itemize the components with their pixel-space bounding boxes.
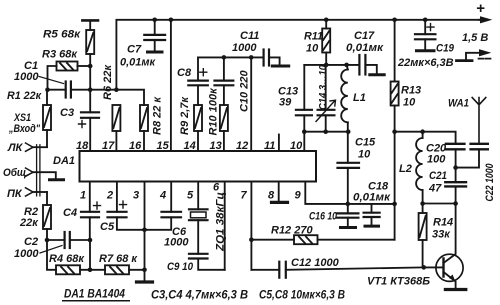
capacitor C21 bbox=[455, 168, 457, 204]
svg-text:R1 22к: R1 22к bbox=[7, 90, 42, 102]
antenna WA1 bbox=[472, 98, 486, 144]
svg-text:ZQ1 38кГц: ZQ1 38кГц bbox=[215, 192, 227, 252]
wire: C1 right lead bbox=[71, 89, 90, 91]
svg-text:C5: C5 bbox=[100, 221, 115, 233]
resistor R5 bbox=[86, 30, 94, 54]
wire: node row to R8 bbox=[90, 90, 144, 105]
capacitor C20 bbox=[445, 143, 466, 145]
ground under R7 bbox=[137, 280, 153, 283]
capacitor C11 bbox=[263, 50, 265, 66]
supply minus terminal bbox=[466, 53, 483, 61]
svg-text:L1: L1 bbox=[353, 92, 366, 104]
capacitor C3 (polarized) bbox=[81, 111, 99, 113]
svg-text:15: 15 bbox=[157, 140, 170, 152]
svg-text:7: 7 bbox=[241, 190, 248, 202]
svg-text:R5 68к: R5 68к bbox=[43, 29, 81, 41]
capacitor C1 bbox=[65, 82, 67, 98]
wire: pin9 run bbox=[305, 182, 394, 204]
ground pin8 bbox=[278, 182, 280, 202]
ground C17 bbox=[370, 73, 384, 76]
svg-text:R3 68к: R3 68к bbox=[42, 49, 78, 61]
svg-text:C11: C11 bbox=[240, 30, 259, 42]
svg-text:+: + bbox=[476, 0, 485, 17]
resistor R11 bbox=[325, 20, 327, 65]
svg-text:DA1: DA1 bbox=[53, 155, 75, 167]
capacitor C10 bbox=[223, 57, 225, 105]
svg-text:R13: R13 bbox=[401, 85, 421, 97]
inductor L2 bbox=[422, 132, 424, 138]
svg-text:C3: C3 bbox=[60, 107, 74, 119]
capacitor C22 bbox=[469, 143, 489, 145]
svg-text:R10 100к: R10 100к bbox=[208, 87, 220, 136]
svg-text:C12 1000: C12 1000 bbox=[291, 257, 340, 269]
wire: LK to R1 bbox=[33, 146, 47, 148]
wire: pin12 up bbox=[250, 57, 252, 151]
resistor R13 bbox=[394, 20, 396, 240]
capacitor C4 (polarized) bbox=[89, 182, 91, 241]
resistor R1 bbox=[46, 90, 48, 147]
svg-text:22мк×6,3В: 22мк×6,3В bbox=[397, 57, 454, 69]
wire: pin10 up bbox=[303, 132, 305, 151]
svg-text:2: 2 bbox=[106, 190, 113, 202]
wire: C2 node down to R4 bbox=[47, 240, 56, 270]
svg-text:R8 22 к: R8 22 к bbox=[152, 96, 164, 135]
svg-text:22к: 22к bbox=[19, 217, 39, 229]
wire: R5 top supply stub bar bbox=[82, 19, 98, 22]
wire: collector row bbox=[423, 203, 456, 205]
ground VT1 emitter bbox=[445, 288, 465, 291]
ground C16 bbox=[341, 226, 356, 229]
capacitor C17 bbox=[347, 65, 377, 74]
capacitor C9 bbox=[189, 253, 208, 255]
svg-text:3: 3 bbox=[133, 190, 139, 202]
svg-text:R12 270: R12 270 bbox=[271, 225, 313, 237]
wire: main +rail bbox=[116, 20, 479, 90]
svg-text:C15: C15 bbox=[355, 137, 376, 149]
svg-text:1: 1 bbox=[80, 190, 86, 202]
svg-text:WA1: WA1 bbox=[448, 98, 469, 110]
wire: output tank top bbox=[395, 132, 456, 144]
wire: R4 to node bbox=[80, 269, 105, 271]
wire: pin3 column bbox=[144, 182, 146, 282]
svg-text:100: 100 bbox=[427, 154, 446, 166]
resistor R6 bbox=[112, 105, 120, 131]
crystal ZQ1 bbox=[197, 182, 199, 254]
svg-text:C19: C19 bbox=[436, 43, 455, 55]
svg-text:17: 17 bbox=[102, 140, 115, 152]
svg-text:C4: C4 bbox=[63, 207, 77, 219]
svg-text:12: 12 bbox=[236, 140, 248, 152]
svg-text:33к: 33к bbox=[432, 229, 451, 241]
svg-text:8: 8 bbox=[268, 190, 275, 202]
svg-text:6: 6 bbox=[213, 182, 220, 194]
svg-text:0,01мк: 0,01мк bbox=[346, 42, 384, 54]
capacitor C13 bbox=[303, 65, 305, 132]
svg-text:10: 10 bbox=[290, 140, 303, 152]
svg-text:16: 16 bbox=[129, 140, 142, 152]
svg-text:ЛК: ЛК bbox=[7, 142, 24, 154]
resistor R10 bbox=[220, 105, 228, 131]
wire: C2 label leader bbox=[40, 246, 62, 254]
svg-text:R7 68 к: R7 68 к bbox=[99, 253, 138, 265]
svg-text:ПК: ПК bbox=[7, 188, 23, 200]
capacitor C6 bbox=[145, 182, 172, 230]
svg-text:C2: C2 bbox=[24, 236, 38, 248]
wire: pin6 down bbox=[224, 182, 226, 270]
wire: cable shield lines bbox=[37, 145, 40, 196]
connector XS1 pin PK bbox=[26, 188, 34, 196]
wire: tank top bbox=[304, 64, 346, 66]
svg-text:47: 47 bbox=[428, 183, 442, 195]
capacitor C7 bbox=[154, 20, 156, 51]
wire: C8 C10 pin12 row bbox=[198, 56, 263, 58]
connector XS1 pin LK bbox=[26, 143, 34, 151]
svg-text:1000: 1000 bbox=[14, 248, 39, 260]
wire: R3 right lead bbox=[78, 65, 91, 67]
IC DA1 body bbox=[80, 151, 317, 182]
capacitor C16 bbox=[347, 204, 349, 226]
supply arrow + bbox=[479, 19, 486, 21]
resistor R7 bbox=[105, 265, 129, 274]
resistor R2 bbox=[46, 192, 48, 240]
svg-text:C5,C8 10мк×6,3 В: C5,C8 10мк×6,3 В bbox=[259, 290, 345, 302]
svg-text:1000: 1000 bbox=[14, 71, 39, 83]
svg-text:R6 22к: R6 22к bbox=[102, 64, 114, 100]
svg-text:C21: C21 bbox=[429, 170, 447, 182]
svg-text:VT1 КТ368Б: VT1 КТ368Б bbox=[367, 276, 430, 288]
resistor R14 bbox=[422, 204, 424, 268]
capacitor C2 bbox=[63, 232, 65, 248]
svg-text:C8: C8 bbox=[177, 67, 192, 79]
svg-text:R4 68к: R4 68к bbox=[49, 253, 85, 265]
svg-text:1,5 В: 1,5 В bbox=[462, 32, 488, 44]
capacitor C8 (polarized) bbox=[197, 57, 199, 105]
ground C11 bbox=[272, 65, 288, 68]
resistor R12 bbox=[251, 239, 394, 241]
svg-text:1000: 1000 bbox=[164, 237, 189, 249]
svg-text:39: 39 bbox=[279, 97, 292, 109]
svg-text:5: 5 bbox=[187, 190, 194, 202]
capacitor C19 (polarized) bbox=[424, 20, 426, 50]
svg-text:C7: C7 bbox=[127, 44, 142, 56]
wire: Obsch to ground bbox=[33, 172, 56, 179]
svg-text:18: 18 bbox=[76, 140, 89, 152]
ground C19 bbox=[417, 49, 435, 52]
wire: C2 left lead bbox=[47, 239, 65, 241]
svg-text:Общ.: Общ. bbox=[3, 167, 29, 179]
wire: C4 node down bbox=[89, 240, 91, 270]
svg-text:C17: C17 bbox=[354, 30, 375, 42]
svg-text:„Вход": „Вход" bbox=[8, 123, 40, 135]
svg-text:14: 14 bbox=[184, 140, 196, 152]
resistor R3 bbox=[57, 62, 78, 71]
wire: R3 left lead bbox=[48, 66, 57, 90]
svg-text:C16 10: C16 10 bbox=[309, 211, 338, 223]
resistor R4 bbox=[56, 265, 80, 274]
wire: PK to R2 bbox=[33, 191, 47, 193]
wire: C1 left lead bbox=[48, 89, 66, 91]
wire: C2 right lead bbox=[70, 239, 90, 241]
connector XS1 pin Obsch bbox=[26, 168, 34, 176]
svg-text:10: 10 bbox=[306, 43, 319, 55]
wire: R5 bottom to node bbox=[89, 54, 91, 90]
svg-text:C22 1000: C22 1000 bbox=[484, 163, 496, 202]
svg-text:R9 2,7к: R9 2,7к bbox=[179, 96, 191, 135]
resistor R9 bbox=[194, 105, 202, 131]
capacitor C14 (variable) bbox=[325, 65, 327, 132]
ground C7 bbox=[148, 51, 163, 54]
capacitor C5 (polarized) bbox=[117, 182, 145, 230]
svg-text:L2: L2 bbox=[399, 163, 412, 175]
svg-text:C14 3…10: C14 3…10 bbox=[317, 65, 329, 110]
capacitor C12 bbox=[278, 262, 280, 278]
svg-text:0,01мк: 0,01мк bbox=[353, 192, 391, 204]
wire: R7 right lead bbox=[129, 269, 145, 271]
svg-text:C9 10: C9 10 bbox=[167, 261, 194, 273]
capacitor C15 bbox=[347, 132, 349, 204]
svg-text:10: 10 bbox=[403, 97, 416, 109]
svg-text:0,01мк: 0,01мк bbox=[120, 57, 157, 69]
wire: pin15 to rail bbox=[170, 20, 172, 151]
capacitor C18 bbox=[371, 204, 373, 225]
wire: tank bottom bbox=[304, 131, 348, 133]
transistor VT1 bbox=[436, 254, 463, 281]
svg-text:10: 10 bbox=[358, 149, 371, 161]
svg-text:C10 220: C10 220 bbox=[239, 70, 251, 112]
resistor R8 bbox=[140, 105, 148, 131]
wire: pin7 down bbox=[250, 182, 252, 270]
svg-text:4: 4 bbox=[159, 190, 166, 202]
svg-text:R14: R14 bbox=[433, 217, 453, 229]
svg-text:C3,C4 4,7мк×6,3 В: C3,C4 4,7мк×6,3 В bbox=[151, 290, 248, 302]
svg-text:DA1 BA1404: DA1 BA1404 bbox=[64, 289, 126, 301]
svg-text:13: 13 bbox=[210, 140, 222, 152]
wire: pin11 stub bbox=[278, 135, 280, 152]
underline DA1 type bbox=[62, 300, 130, 302]
inductor L1 bbox=[347, 65, 348, 132]
svg-text:9: 9 bbox=[295, 190, 302, 202]
wire: C1 label leader bbox=[39, 77, 64, 84]
svg-text:R11: R11 bbox=[304, 31, 323, 43]
ground C18 bbox=[365, 225, 379, 228]
bottom annotations bbox=[64, 289, 345, 302]
svg-text:11: 11 bbox=[264, 140, 275, 152]
ground Obsch bbox=[50, 178, 64, 181]
svg-text:1000: 1000 bbox=[232, 42, 257, 54]
